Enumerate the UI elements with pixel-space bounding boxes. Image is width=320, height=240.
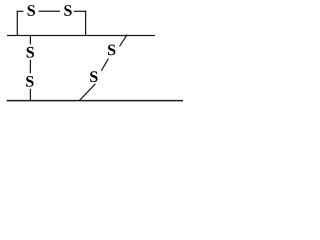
left crosslink: bond chain-S3 — [29, 36, 31, 44]
sulfur atom S3 — [27, 47, 34, 58]
sulfur atom S5 — [90, 71, 97, 82]
sulfur atom S1 — [28, 5, 35, 16]
sulfur atom S6 — [108, 45, 115, 56]
cyclic disulfide pendant: left vertical wire — [16, 11, 18, 36]
right crosslink: bond chain-S5 — [80, 84, 96, 101]
right crosslink: bond S6-chain — [120, 35, 128, 47]
sulfur atom S2 — [64, 5, 71, 16]
cyclic disulfide pendant: top-left horizontal wire — [17, 10, 24, 12]
left crosslink: bond S3-S4 — [29, 60, 31, 74]
cyclic disulfide pendant: right vertical wire — [85, 11, 87, 36]
cyclic disulfide pendant: top-right horizontal wire — [74, 10, 86, 12]
left crosslink: bond S4-chain — [29, 89, 31, 101]
sulfur atom S4 — [26, 76, 33, 87]
polymer chain top line — [7, 35, 155, 37]
polymer chain bottom line — [7, 100, 183, 102]
bond S1-S2 — [39, 10, 60, 12]
right crosslink: bond S5-S6 — [101, 59, 108, 71]
